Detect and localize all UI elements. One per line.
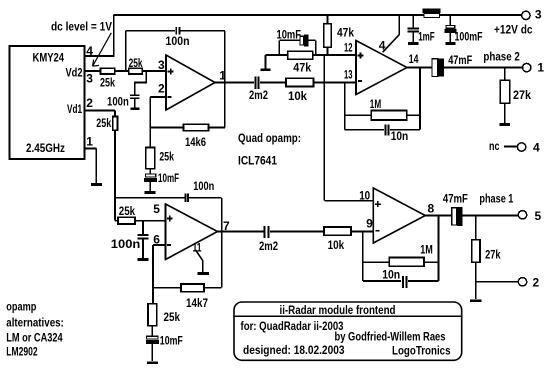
svg-text:2m2: 2m2 xyxy=(259,239,278,253)
terminal 2 xyxy=(518,276,539,290)
svg-text:100n: 100n xyxy=(193,179,214,193)
wire R4 to C3 xyxy=(149,169,151,175)
wire inverting input U2C xyxy=(153,245,166,288)
svg-text:27k: 27k xyxy=(513,88,531,102)
wire bias to pin10 U2D xyxy=(324,55,373,201)
svg-text:14k6: 14k6 xyxy=(185,135,206,149)
svg-text:25k: 25k xyxy=(159,150,174,164)
ground xyxy=(445,42,455,45)
svg-text:designed: 18.02.2003: designed: 18.02.2003 xyxy=(243,343,345,357)
wire feedback U2B xyxy=(345,68,420,130)
ground stub 47k xyxy=(260,55,270,70)
wire R5 to inverting input U2B xyxy=(314,82,357,84)
capacitor C15 47mF electrolytic xyxy=(443,192,468,226)
capacitor C7 47mF electrolytic xyxy=(432,53,472,77)
svg-text:4: 4 xyxy=(533,141,540,155)
svg-text:Vd2: Vd2 xyxy=(66,65,83,79)
resistor R13 25k xyxy=(148,288,180,326)
sensor module U1 KMY24 xyxy=(10,46,85,159)
resistor R10 25k xyxy=(96,116,117,130)
svg-text:2: 2 xyxy=(158,82,165,96)
wire power pin 4 U2B xyxy=(379,15,399,52)
resistor R5 10k xyxy=(286,78,314,103)
capacitor C1 100n xyxy=(166,27,190,48)
svg-text:11: 11 xyxy=(193,240,202,254)
capacitor C11 100n to ground xyxy=(111,221,149,259)
svg-text:by Godfried-Willem Raes: by Godfried-Willem Raes xyxy=(335,330,446,344)
inductor L1 bead xyxy=(423,9,440,17)
svg-text:47mF: 47mF xyxy=(448,53,472,67)
wire output U2C xyxy=(218,231,325,233)
svg-text:ICL7641: ICL7641 xyxy=(238,153,277,167)
node nc xyxy=(489,139,517,153)
svg-text:alternatives:: alternatives: xyxy=(6,316,64,330)
capacitor C14 10n xyxy=(382,268,406,288)
svg-text:1: 1 xyxy=(219,69,226,83)
svg-text:100mF: 100mF xyxy=(455,30,483,44)
wire power pin 11 U2C to ground xyxy=(193,240,203,272)
svg-text:27k: 27k xyxy=(485,248,501,262)
svg-text:2m2: 2m2 xyxy=(249,88,268,102)
svg-text:phase 2: phase 2 xyxy=(483,49,520,63)
svg-text:10mF: 10mF xyxy=(158,171,179,185)
svg-text:8: 8 xyxy=(428,202,435,216)
svg-text:25k: 25k xyxy=(100,75,115,89)
svg-text:10n: 10n xyxy=(382,268,400,282)
svg-text:14k7: 14k7 xyxy=(186,296,208,310)
svg-text:3: 3 xyxy=(535,8,542,22)
svg-text:47k: 47k xyxy=(337,25,354,39)
svg-text:LM or CA324: LM or CA324 xyxy=(6,331,63,345)
wire output U2B to phase2 xyxy=(407,67,523,69)
svg-text:1: 1 xyxy=(86,135,93,149)
wire R14 to inverting input U2D xyxy=(351,231,373,233)
op-amp U2C xyxy=(153,202,230,260)
svg-text:phase 1: phase 1 xyxy=(479,192,513,206)
wire node between 25k resistors xyxy=(115,70,129,72)
capacitor C13 2m2 xyxy=(259,226,278,253)
wire feedback U2D xyxy=(363,216,439,282)
svg-text:9: 9 xyxy=(366,217,373,231)
svg-text:10mF: 10mF xyxy=(160,334,183,348)
op-amp U2A xyxy=(158,55,226,110)
wire pin1 to ground xyxy=(85,149,97,184)
wire output U2D to phase1 xyxy=(425,215,518,217)
wire R10 down to 25k input xyxy=(115,130,118,221)
svg-text:10n: 10n xyxy=(391,129,409,143)
resistor R2 25k xyxy=(129,56,143,74)
svg-text:3: 3 xyxy=(158,58,165,72)
ground xyxy=(131,107,140,110)
terminal 4 xyxy=(517,141,540,155)
resistor R7 47k xyxy=(324,15,355,55)
op-amp U2D xyxy=(359,188,434,243)
wire Vd2 pin3 to resistor xyxy=(85,70,101,72)
ground xyxy=(500,123,510,126)
capacitor C6 10n xyxy=(385,124,408,143)
resistor R16 27k xyxy=(472,216,501,300)
resistor R3 14k6 xyxy=(184,124,209,149)
svg-text:47mF: 47mF xyxy=(443,192,468,206)
svg-text:Quad opamp:: Quad opamp: xyxy=(238,131,301,145)
svg-text:5: 5 xyxy=(535,209,542,223)
wire R11 to op-amp xyxy=(135,220,166,222)
resistor R12 14k7 xyxy=(181,284,208,310)
svg-text:25k: 25k xyxy=(129,56,143,70)
resistor R6 47k xyxy=(288,51,313,74)
resistor R14 10k xyxy=(324,227,351,252)
text quad opamp note xyxy=(238,131,301,168)
wire output U2A xyxy=(215,82,286,84)
svg-text:10k: 10k xyxy=(328,238,345,252)
svg-text:100n: 100n xyxy=(166,34,190,48)
wire Vd1 pin2 chain xyxy=(85,111,116,117)
ground xyxy=(91,183,102,186)
svg-text:1mF: 1mF xyxy=(418,30,435,44)
capacitor C9 100mF xyxy=(445,15,482,44)
svg-text:10mF: 10mF xyxy=(277,28,302,42)
wire bias node xyxy=(266,54,357,56)
svg-text:12: 12 xyxy=(344,41,353,55)
ground xyxy=(145,191,156,194)
svg-text:KMY24: KMY24 xyxy=(33,50,65,64)
svg-text:2: 2 xyxy=(86,96,93,110)
wire to terminal 2 xyxy=(476,281,519,283)
svg-text:25k: 25k xyxy=(96,116,111,130)
wire inverting input U2A xyxy=(150,97,166,148)
svg-text:LM2902: LM2902 xyxy=(6,344,38,358)
svg-text:10k: 10k xyxy=(288,89,307,103)
svg-text:ii-Radar module frontend: ii-Radar module frontend xyxy=(280,303,396,317)
resistor R1 25k xyxy=(100,68,115,89)
wire feedback loop op-amp U2A xyxy=(126,31,225,128)
svg-text:100n: 100n xyxy=(111,237,141,251)
svg-text:3: 3 xyxy=(86,72,93,86)
wire feedback loop U2C xyxy=(115,198,222,288)
capacitor C2 100n to ground xyxy=(107,71,146,108)
svg-text:Vd1: Vd1 xyxy=(67,102,82,116)
resistor R4 25k xyxy=(146,148,174,169)
resistor R9 27k xyxy=(500,68,531,124)
ground xyxy=(137,258,148,261)
wire +12V top rail xyxy=(114,14,522,16)
resistor R11 25k xyxy=(118,204,135,224)
resistor R15 1M xyxy=(389,242,433,266)
svg-text:opamp: opamp xyxy=(6,300,36,314)
svg-text:5: 5 xyxy=(153,202,160,216)
svg-text:100n: 100n xyxy=(107,94,129,108)
svg-text:1: 1 xyxy=(537,60,544,74)
wire feedback 14k7 xyxy=(153,287,222,289)
ground xyxy=(198,272,209,275)
svg-text:4: 4 xyxy=(379,38,386,52)
svg-text:LogoTronics: LogoTronics xyxy=(392,344,451,358)
capacitor C8 1mF xyxy=(407,15,434,44)
ground xyxy=(470,299,481,302)
svg-text:for: QuadRadar ii-2003: for: QuadRadar ii-2003 xyxy=(241,319,344,333)
ground xyxy=(408,42,419,45)
terminal 5 xyxy=(518,209,541,223)
svg-text:dc level = 1V: dc level = 1V xyxy=(51,20,112,34)
svg-text:2: 2 xyxy=(533,276,540,290)
ground xyxy=(147,361,158,364)
capacitor C12 10mF electrolytic xyxy=(147,326,183,362)
svg-text:+12V dc: +12V dc xyxy=(494,23,533,37)
wire pin4 KMY24 to rail xyxy=(85,15,114,56)
capacitor C3 10mF electrolytic xyxy=(145,171,179,191)
svg-text:25k: 25k xyxy=(164,310,181,324)
svg-text:25k: 25k xyxy=(119,204,136,218)
wire R2 to op-amp input xyxy=(142,70,166,72)
svg-text:1M: 1M xyxy=(420,242,433,256)
terminal 3 xyxy=(522,8,542,22)
svg-text:1M: 1M xyxy=(370,97,381,111)
svg-text:47k: 47k xyxy=(293,60,311,74)
svg-text:2.45GHz: 2.45GHz xyxy=(26,141,65,155)
wire feedback 14k6 xyxy=(150,127,225,129)
svg-text:13: 13 xyxy=(344,67,353,81)
op-amp U2B xyxy=(344,41,419,95)
text opamp alternatives xyxy=(6,300,64,359)
svg-text:10: 10 xyxy=(359,189,370,203)
svg-text:14: 14 xyxy=(409,52,419,66)
capacitor C4 2m2 xyxy=(249,76,268,102)
capacitor C5 10mF electrolytic xyxy=(277,28,316,56)
title block xyxy=(234,302,462,360)
svg-text:4: 4 xyxy=(86,44,93,58)
annotation dc level = 1V xyxy=(51,20,112,67)
svg-text:nc: nc xyxy=(489,139,500,153)
terminal 1 xyxy=(523,60,545,74)
resistor R8 1M xyxy=(370,97,407,120)
capacitor C10 100n xyxy=(186,179,215,202)
